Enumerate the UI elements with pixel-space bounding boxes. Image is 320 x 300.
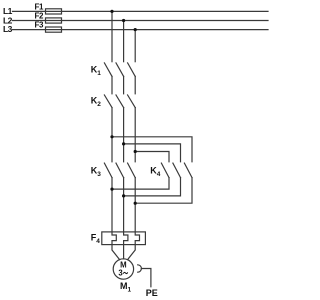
svg-text:3: 3 [118,269,123,278]
svg-text:PE: PE [146,288,158,298]
svg-text:F1: F1 [35,2,44,11]
svg-text:F3: F3 [35,21,44,30]
svg-text:F2: F2 [35,11,44,20]
svg-text:L3: L3 [3,24,13,34]
